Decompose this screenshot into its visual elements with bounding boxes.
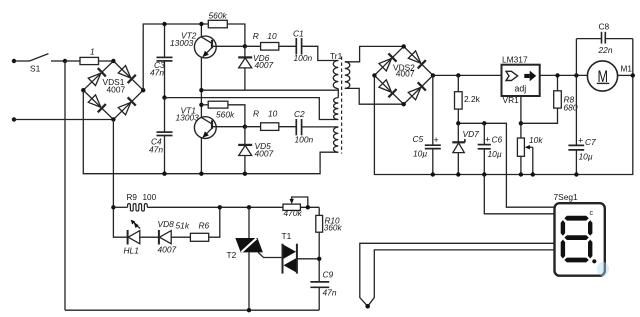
node: R6 top junction	[218, 205, 222, 209]
svg-text:10: 10	[268, 108, 278, 118]
resistor R 10 (lower)	[245, 108, 296, 130]
capacitor C7 10u	[568, 75, 596, 176]
svg-text:10µ: 10µ	[413, 149, 427, 159]
capacitor C5 10u	[413, 75, 441, 176]
svg-text:680: 680	[564, 103, 578, 113]
capacitor C6 10u	[478, 123, 503, 176]
svg-text:T1: T1	[282, 231, 292, 241]
resistor 2.2k	[455, 75, 481, 123]
svg-text:+: +	[434, 135, 439, 145]
thyristor T1	[282, 231, 320, 274]
node: C3 on top rail	[162, 22, 166, 26]
capacitor C1 100n	[293, 28, 312, 63]
node: R8 tap	[555, 73, 559, 77]
wire: VDS2 right corner to LM317 input	[433, 74, 502, 76]
wire: rail B (to transformer primary 2)	[165, 98, 339, 120]
svg-text:c: c	[590, 210, 594, 217]
wire: VDS1 right corner up to top rail	[143, 24, 208, 90]
svg-text:VD8: VD8	[158, 219, 175, 229]
node: C6 top	[482, 121, 486, 125]
svg-text:2.2k: 2.2k	[464, 94, 481, 104]
svg-text:C8: C8	[599, 21, 610, 31]
svg-text:C7: C7	[585, 137, 596, 147]
svg-text:4007: 4007	[158, 245, 177, 255]
svg-text:C2: C2	[294, 109, 305, 119]
node: VD7 top	[456, 121, 460, 125]
wire: VDS2 left corner down to DC minus rail	[374, 39, 632, 175]
svg-text:10k: 10k	[529, 135, 543, 145]
svg-text:S1: S1	[30, 64, 41, 74]
svg-text:4007: 4007	[255, 60, 274, 70]
diode bridge VDS2	[372, 44, 435, 106]
node: AC input terminal bottom	[12, 117, 114, 121]
svg-text:C6: C6	[492, 135, 503, 145]
resistor R9 100 (wirewound coil)	[113, 193, 219, 211]
node: adj node	[519, 121, 523, 125]
node: VT1 base / 560k tap	[199, 103, 203, 107]
svg-text:22n: 22n	[598, 45, 613, 55]
node: VT1 collector node	[243, 125, 247, 129]
node: VT2 collector node	[243, 44, 247, 48]
display 7Seg1	[554, 192, 610, 276]
node: C8/C7 tap	[574, 73, 578, 77]
svg-text:T2: T2	[227, 250, 237, 260]
diode VD8 4007	[158, 219, 191, 255]
svg-text:13003: 13003	[170, 38, 194, 48]
potentiometer 10k	[517, 135, 543, 177]
svg-text:4007: 4007	[107, 85, 126, 95]
LED HL1	[124, 220, 159, 256]
capacitor C2 100n	[294, 109, 338, 144]
resistor R10 360k	[316, 207, 343, 281]
svg-text:VR1: VR1	[503, 95, 520, 105]
svg-text:47n: 47n	[149, 145, 163, 155]
resistor R 10 (upper)	[245, 31, 296, 50]
zener diode VD7	[452, 123, 479, 176]
svg-text:360k: 360k	[324, 224, 343, 233]
wire: adj node to R8 bottom	[521, 108, 558, 123]
svg-text:R: R	[253, 31, 259, 41]
wire: bottom rail	[65, 309, 319, 311]
wire: LM317 output	[540, 74, 588, 76]
diode VD6 4007	[238, 46, 273, 90]
svg-text:47n: 47n	[150, 68, 164, 78]
capacitor C8 22n	[576, 21, 632, 75]
svg-text:1: 1	[90, 47, 95, 57]
svg-text:13003: 13003	[176, 112, 200, 122]
resistor R8 680	[554, 75, 578, 112]
svg-text:VD7: VD7	[463, 129, 480, 139]
triac T2	[227, 207, 283, 310]
svg-text:47n: 47n	[323, 288, 337, 298]
node: rail B / C3-C4 junction	[162, 95, 166, 99]
svg-text:LM317: LM317	[502, 54, 528, 64]
transistor VT1 13003	[176, 105, 245, 173]
node: rail C dots	[162, 172, 166, 176]
svg-text:100: 100	[143, 193, 157, 202]
svg-text:560k: 560k	[209, 11, 228, 21]
wire: reference node line	[458, 123, 554, 207]
capacitor C9 47n	[310, 270, 336, 311]
wire: LM317 adj pin	[520, 96, 522, 138]
node: T2 bottom on rail	[247, 308, 251, 312]
node: S1 junction	[63, 59, 67, 63]
transistor VT2 13003	[170, 24, 245, 117]
wire: C6 node to display	[484, 175, 554, 214]
node: R9 junction	[111, 205, 115, 209]
wire: VDS1 left corner down to oscillator bottom rail	[83, 90, 338, 174]
svg-text:C1: C1	[293, 28, 304, 38]
node: T1 to R10/C9 junction	[317, 257, 321, 261]
svg-text:100n: 100n	[294, 53, 313, 63]
svg-text:100n: 100n	[295, 134, 314, 144]
transformer Tr1	[330, 46, 404, 153]
resistor 560k (upper)	[208, 11, 227, 28]
capacitor C3 47n	[150, 24, 173, 98]
svg-text:560k: 560k	[216, 110, 235, 120]
svg-text:10µ: 10µ	[488, 149, 502, 159]
capacitor C4 47n	[149, 98, 173, 174]
svg-text:HL1: HL1	[124, 246, 139, 256]
fuse resistor 1	[65, 47, 113, 65]
svg-text:10: 10	[267, 31, 277, 41]
wire: top rail right part	[227, 24, 245, 46]
svg-text:R9: R9	[127, 193, 138, 202]
node: AC input terminal top	[12, 59, 30, 63]
svg-text:Tr1: Tr1	[330, 51, 343, 61]
motor M1	[587, 61, 635, 91]
wire: gate line to T2 and pot	[220, 206, 283, 208]
node: VT2 base on top rail	[199, 22, 203, 26]
svg-text:C9: C9	[323, 270, 334, 280]
svg-text:+: +	[485, 135, 490, 145]
switch S1	[30, 54, 66, 74]
node: rail A left end / VT2 emitter	[199, 88, 203, 92]
svg-text:+: +	[578, 136, 583, 146]
resistor R6 51k	[176, 207, 220, 241]
svg-text:M1: M1	[621, 65, 633, 74]
wire: rail A (to transformer centre tap)	[201, 89, 338, 91]
svg-text:51k: 51k	[176, 221, 190, 231]
svg-text:470k: 470k	[284, 208, 303, 218]
resistor 560k (lower)	[201, 101, 245, 127]
svg-text:7Seg1: 7Seg1	[554, 192, 579, 202]
svg-text:10µ: 10µ	[579, 152, 593, 162]
svg-text:adj: adj	[515, 83, 527, 93]
svg-text:R6: R6	[199, 221, 210, 231]
diode VD5 4007	[238, 127, 273, 174]
node: 2.2k tap	[456, 73, 460, 77]
svg-text:4007: 4007	[396, 69, 415, 79]
wire: C1 to transformer primary 1	[302, 46, 339, 60]
voltage regulator U1 LM317	[502, 54, 540, 105]
probe thermocouple	[360, 243, 555, 308]
wire: S1 junction down to bottom rail	[64, 61, 66, 310]
svg-text:R: R	[253, 108, 259, 118]
svg-text:4007: 4007	[255, 149, 274, 159]
wire: VDS1 bottom corner down to control section	[113, 120, 127, 238]
node: T2 top junction	[247, 205, 251, 209]
potentiometer 470k	[283, 197, 319, 218]
diode bridge VDS1	[81, 59, 145, 122]
svg-text:C5: C5	[413, 134, 424, 144]
